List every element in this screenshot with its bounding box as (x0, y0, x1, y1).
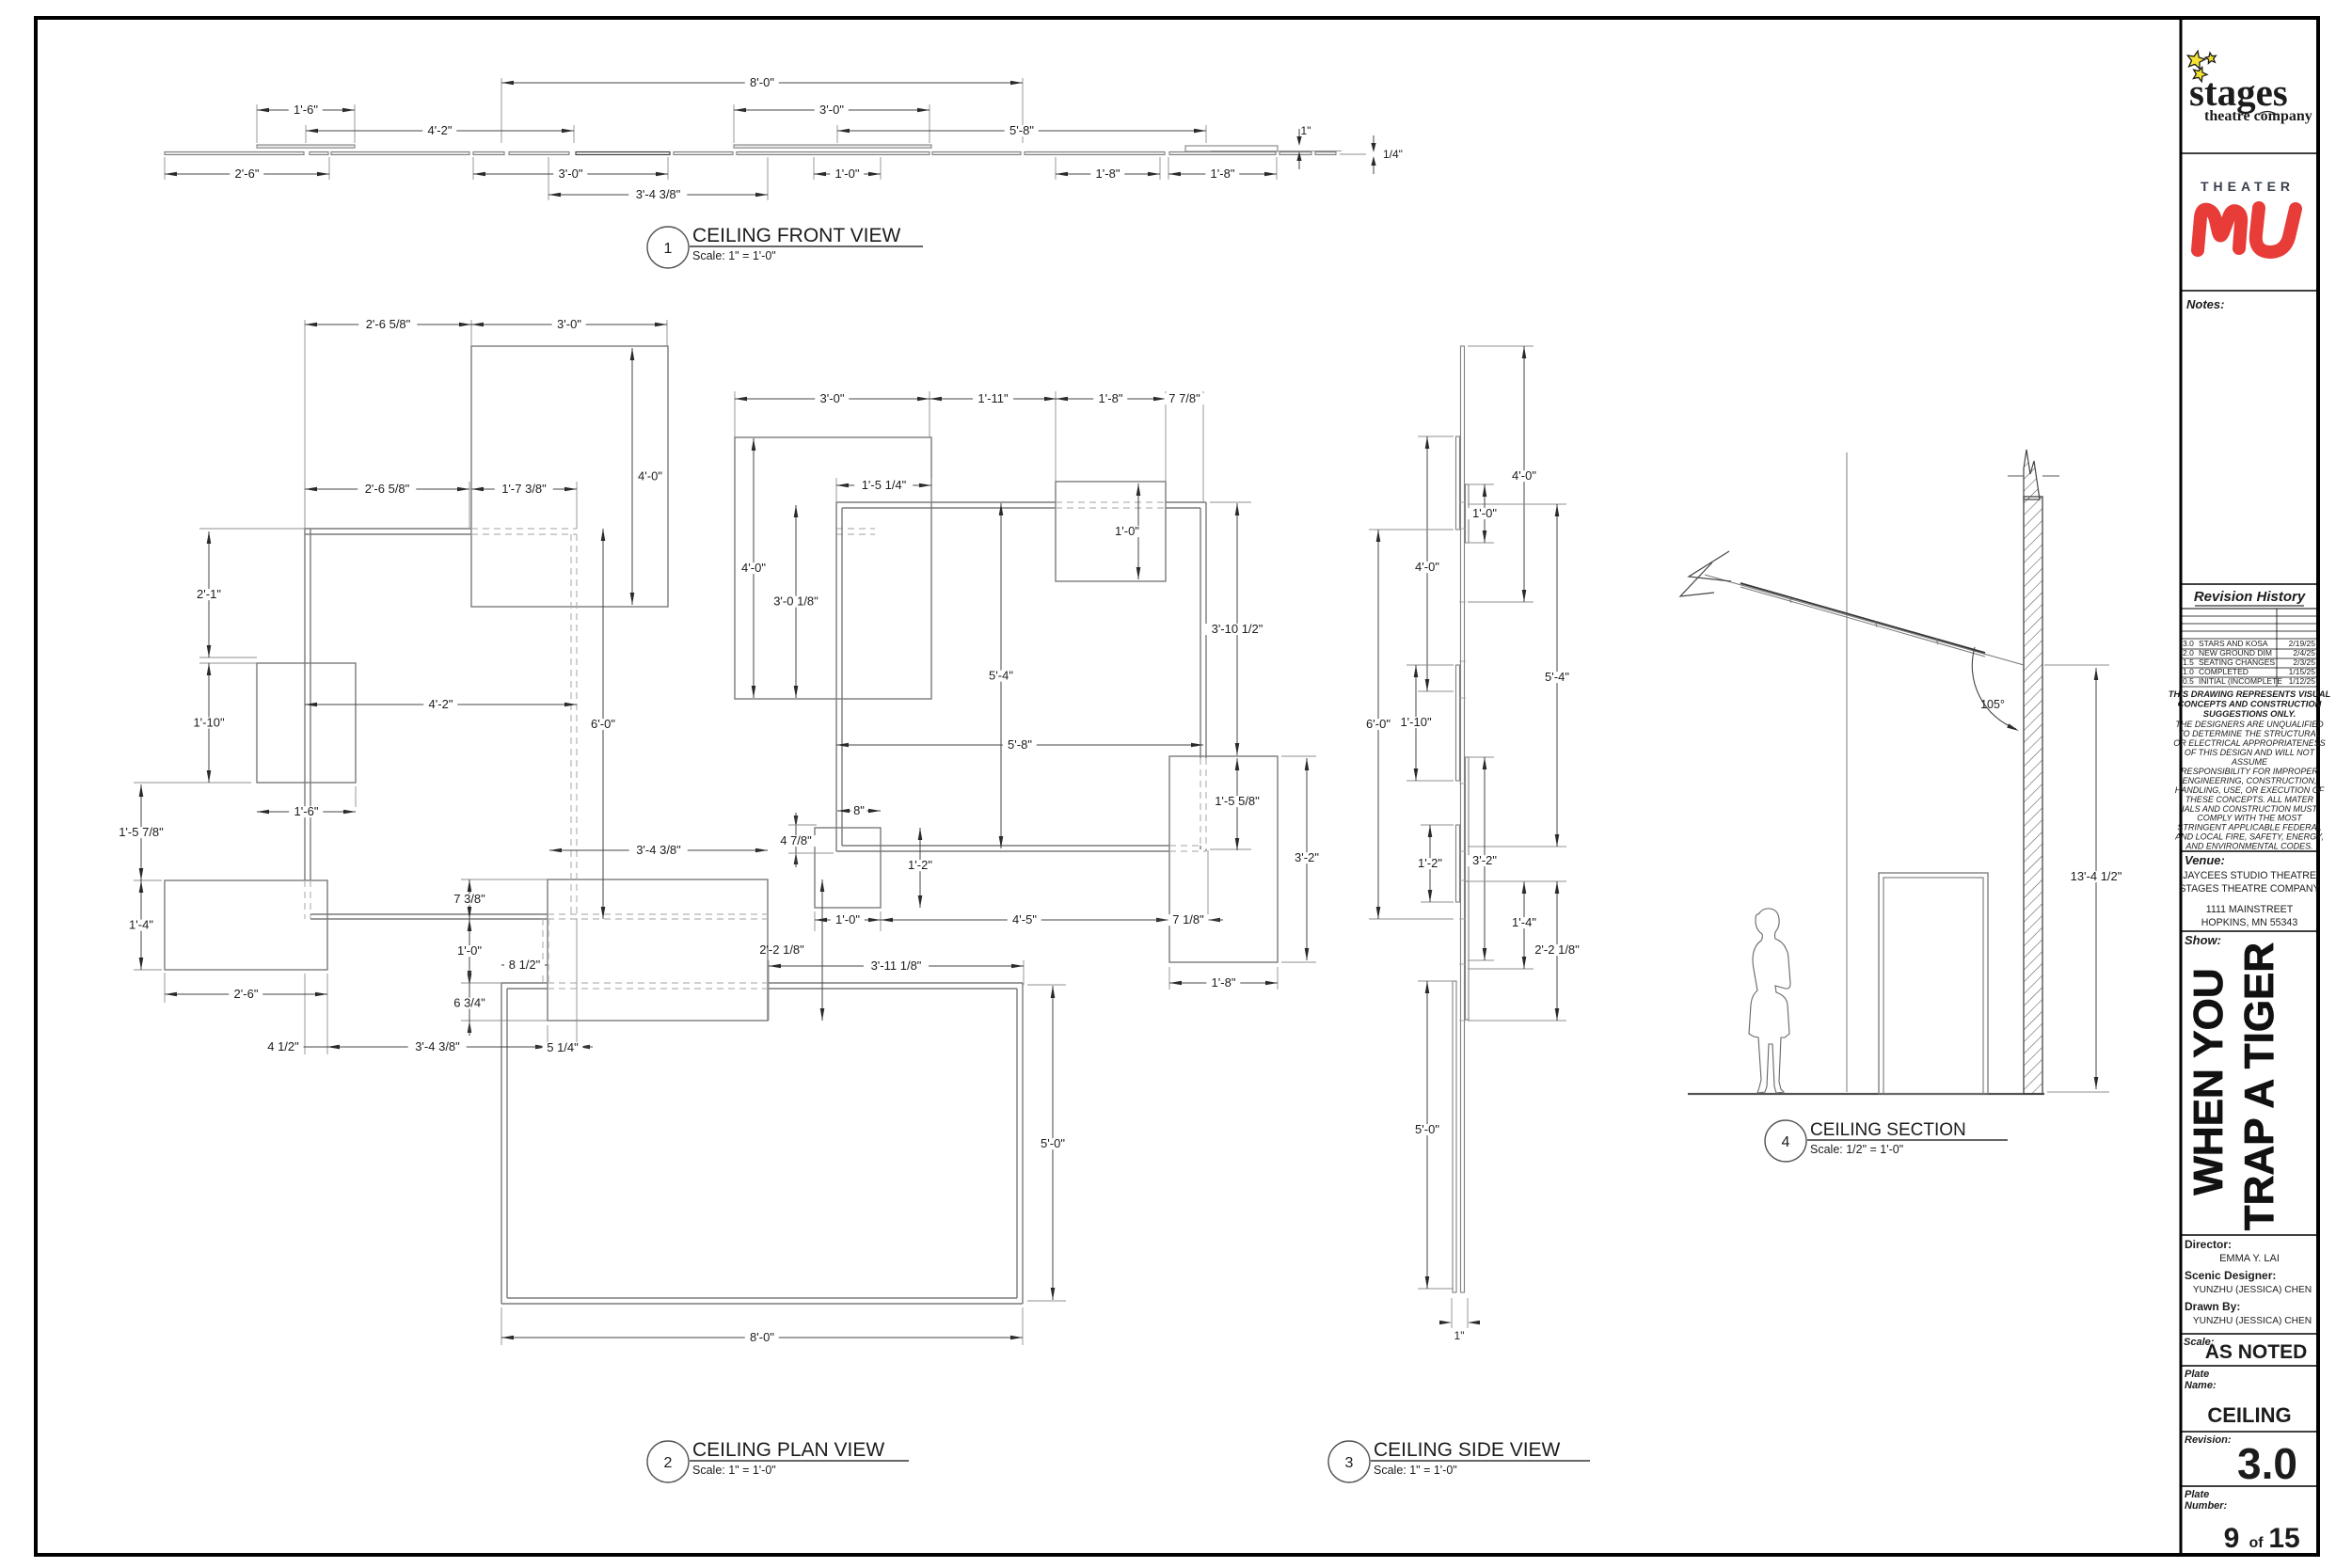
svg-text:5'-4": 5'-4" (1545, 670, 1569, 684)
svg-text:RESPONSIBILITY FOR IMPROPER: RESPONSIBILITY FOR IMPROPER (2181, 767, 2318, 776)
svg-text:THIS DRAWING REPRESENTS VISUAL: THIS DRAWING REPRESENTS VISUAL (2169, 689, 2331, 699)
svg-text:1": 1" (1301, 124, 1311, 137)
svg-text:1'-0": 1'-0" (457, 943, 482, 958)
svg-text:3.0: 3.0 (2183, 639, 2194, 648)
svg-text:Scale: 1" = 1'-0": Scale: 1" = 1'-0" (1374, 1464, 1457, 1477)
svg-text:THE DESIGNERS ARE UNQUALIFIED: THE DESIGNERS ARE UNQUALIFIED (2175, 720, 2324, 729)
svg-text:8'-0": 8'-0" (750, 75, 774, 89)
svg-text:HOPKINS, MN 55343: HOPKINS, MN 55343 (2201, 917, 2298, 928)
svg-text:YUNZHU (JESSICA) CHEN: YUNZHU (JESSICA) CHEN (2193, 1316, 2312, 1326)
svg-text:1'-5 5/8": 1'-5 5/8" (1215, 794, 1260, 808)
svg-text:1'-11": 1'-11" (977, 391, 1009, 405)
svg-text:Revision:: Revision: (2185, 1434, 2232, 1446)
svg-text:1'-2": 1'-2" (1418, 856, 1442, 870)
svg-text:OF THIS DESIGN AND WILL NOT: OF THIS DESIGN AND WILL NOT (2185, 748, 2316, 757)
svg-text:HANDLING, USE, OR EXECUTION OF: HANDLING, USE, OR EXECUTION OF (2175, 785, 2325, 795)
svg-text:1'-8": 1'-8" (1212, 975, 1236, 990)
svg-text:3'-0 1/8": 3'-0 1/8" (773, 594, 818, 609)
svg-text:YUNZHU (JESSICA) CHEN: YUNZHU (JESSICA) CHEN (2193, 1285, 2312, 1295)
svg-text:6'-0": 6'-0" (591, 717, 615, 731)
svg-text:7 3/8": 7 3/8" (453, 892, 485, 906)
svg-text:3'-4 3/8": 3'-4 3/8" (636, 187, 681, 201)
svg-text:Number:: Number: (2185, 1500, 2228, 1512)
svg-text:4'-2": 4'-2" (429, 697, 453, 711)
svg-text:1'-5 7/8": 1'-5 7/8" (119, 825, 164, 839)
svg-text:3'-0": 3'-0" (819, 103, 844, 117)
svg-text:Drawn By:: Drawn By: (2185, 1300, 2240, 1313)
svg-text:SUGGESTIONS ONLY.: SUGGESTIONS ONLY. (2203, 708, 2296, 719)
svg-text:5'-8": 5'-8" (1009, 123, 1034, 137)
svg-text:1'-8": 1'-8" (1099, 391, 1123, 405)
svg-text:COMPLETED: COMPLETED (2199, 667, 2249, 676)
svg-text:1'-6": 1'-6" (294, 804, 319, 818)
svg-text:4'-2": 4'-2" (428, 123, 453, 137)
svg-text:1.5: 1.5 (2183, 657, 2194, 667)
svg-text:5 1/4": 5 1/4" (547, 1040, 579, 1054)
svg-text:1/15/25: 1/15/25 (2289, 667, 2316, 676)
svg-text:2'-6 5/8": 2'-6 5/8" (366, 317, 411, 331)
svg-text:3'-0": 3'-0" (559, 166, 583, 181)
svg-text:1'-0": 1'-0" (1115, 524, 1139, 538)
svg-text:4 7/8": 4 7/8" (780, 833, 812, 847)
svg-text:NEW GROUND DIM: NEW GROUND DIM (2199, 648, 2272, 657)
svg-text:2'-2 1/8": 2'-2 1/8" (759, 942, 804, 957)
svg-text:4'-5": 4'-5" (1012, 912, 1037, 927)
svg-text:1'-0": 1'-0" (835, 166, 860, 181)
svg-text:theatre company: theatre company (2204, 108, 2312, 124)
svg-text:3: 3 (1345, 1455, 1354, 1471)
svg-text:Venue:: Venue: (2185, 853, 2225, 867)
svg-text:WHEN YOU: WHEN YOU (2185, 968, 2232, 1195)
svg-text:1'-8": 1'-8" (1211, 166, 1235, 181)
svg-text:1/4": 1/4" (1383, 148, 1403, 161)
svg-text:JAYCEES STUDIO THEATRE: JAYCEES STUDIO THEATRE (2183, 870, 2316, 881)
svg-text:CEILING SECTION: CEILING SECTION (1810, 1120, 1966, 1140)
svg-text:1'-10": 1'-10" (193, 716, 225, 730)
svg-text:2'-2 1/8": 2'-2 1/8" (1534, 942, 1580, 957)
svg-text:2: 2 (664, 1455, 673, 1471)
svg-text:2'-6": 2'-6" (235, 166, 260, 181)
svg-text:1111 MAINSTREET: 1111 MAINSTREET (2206, 904, 2294, 915)
svg-text:1'-2": 1'-2" (908, 858, 932, 872)
svg-text:3.0: 3.0 (2237, 1439, 2297, 1488)
svg-text:8'-0": 8'-0" (750, 1330, 774, 1344)
svg-text:5'-4": 5'-4" (989, 669, 1013, 683)
svg-text:1/12/25: 1/12/25 (2289, 676, 2316, 686)
svg-text:3'-2": 3'-2" (1295, 850, 1319, 864)
svg-text:5'-8": 5'-8" (1008, 737, 1032, 752)
svg-text:STRINGENT APPLICABLE FEDERAL: STRINGENT APPLICABLE FEDERAL (2177, 823, 2321, 832)
svg-text:6 3/4": 6 3/4" (453, 996, 485, 1010)
svg-text:105°: 105° (1980, 698, 2005, 711)
svg-text:3'-10 1/2": 3'-10 1/2" (1212, 622, 1263, 636)
svg-text:7 1/8": 7 1/8" (1172, 912, 1204, 927)
svg-text:9: 9 (2224, 1523, 2240, 1554)
svg-text:3'-11 1/8": 3'-11 1/8" (871, 958, 922, 973)
svg-text:CEILING PLAN VIEW: CEILING PLAN VIEW (692, 1439, 884, 1461)
svg-text:1'-0": 1'-0" (835, 912, 860, 927)
svg-text:4 1/2": 4 1/2" (267, 1039, 299, 1053)
svg-text:4'-0": 4'-0" (1415, 560, 1439, 574)
svg-text:1'-5 1/4": 1'-5 1/4" (862, 478, 907, 492)
svg-text:Notes:: Notes: (2186, 297, 2224, 311)
svg-text:1'-7 3/8": 1'-7 3/8" (501, 482, 547, 496)
svg-text:7 7/8": 7 7/8" (1168, 391, 1200, 405)
svg-text:THESE CONCEPTS. ALL MATER: THESE CONCEPTS. ALL MATER (2185, 795, 2314, 804)
svg-text:4'-0": 4'-0" (638, 469, 662, 483)
svg-text:STARS AND KOSA: STARS AND KOSA (2199, 639, 2268, 648)
svg-text:2'-6": 2'-6" (234, 987, 259, 1001)
svg-text:STAGES THEATRE COMPANY: STAGES THEATRE COMPANY (2179, 883, 2319, 895)
svg-text:2/19/25: 2/19/25 (2289, 639, 2316, 648)
svg-text:13'-4 1/2": 13'-4 1/2" (2071, 869, 2122, 883)
svg-text:TO DETERMINE THE STRUCTURAL: TO DETERMINE THE STRUCTURAL (2178, 729, 2320, 738)
svg-text:Plate: Plate (2185, 1369, 2209, 1380)
svg-text:CEILING: CEILING (2207, 1403, 2291, 1427)
svg-text:5'-0": 5'-0" (1041, 1136, 1065, 1150)
svg-text:of: of (2249, 1535, 2264, 1551)
svg-text:THEATER: THEATER (2201, 179, 2295, 194)
svg-text:1": 1" (1454, 1329, 1465, 1342)
svg-text:Director:: Director: (2185, 1238, 2232, 1251)
svg-text:Plate: Plate (2185, 1489, 2209, 1500)
svg-text:IALS AND CONSTRUCTION MUST: IALS AND CONSTRUCTION MUST (2182, 804, 2318, 814)
svg-text:Scale: 1" = 1'-0": Scale: 1" = 1'-0" (692, 249, 776, 262)
svg-text:SEATING CHANGES: SEATING CHANGES (2199, 657, 2275, 667)
svg-text:Scenic Designer:: Scenic Designer: (2185, 1269, 2276, 1282)
svg-text:15: 15 (2268, 1523, 2299, 1554)
svg-text:1'-0": 1'-0" (1472, 506, 1497, 520)
svg-text:Scale: 1/2" = 1'-0": Scale: 1/2" = 1'-0" (1810, 1143, 1903, 1156)
svg-text:1.0: 1.0 (2183, 667, 2194, 676)
svg-text:INITIAL (INCOMPLETE: INITIAL (INCOMPLETE (2199, 676, 2282, 686)
svg-text:2/3/25: 2/3/25 (2293, 657, 2315, 667)
svg-text:1'-8": 1'-8" (1096, 166, 1120, 181)
svg-text:1'-10": 1'-10" (1400, 715, 1432, 729)
svg-text:3'-0": 3'-0" (557, 317, 581, 331)
svg-text:AS NOTED: AS NOTED (2205, 1341, 2308, 1363)
svg-text:3'-4 3/8": 3'-4 3/8" (415, 1039, 460, 1053)
svg-text:2'-1": 2'-1" (197, 587, 221, 601)
svg-text:1'-4": 1'-4" (1512, 915, 1536, 929)
svg-text:Name:: Name: (2185, 1380, 2217, 1391)
svg-text:Revision History: Revision History (2194, 589, 2306, 605)
svg-text:3'-2": 3'-2" (1472, 853, 1497, 867)
svg-text:3'-4 3/8": 3'-4 3/8" (636, 843, 681, 857)
svg-text:AND LOCAL FIRE, SAFETY, ENERGY: AND LOCAL FIRE, SAFETY, ENERGY, (2174, 832, 2324, 842)
svg-text:4'-0": 4'-0" (741, 561, 766, 575)
svg-text:2'-6 5/8": 2'-6 5/8" (365, 482, 410, 496)
svg-text:4'-0": 4'-0" (1512, 468, 1536, 483)
svg-text:CEILING SIDE VIEW: CEILING SIDE VIEW (1374, 1439, 1561, 1461)
svg-text:1'-6": 1'-6" (294, 103, 318, 117)
svg-text:2.0: 2.0 (2183, 648, 2194, 657)
svg-text:6'-0": 6'-0" (1366, 717, 1391, 731)
svg-text:3'-0": 3'-0" (820, 391, 845, 405)
svg-text:ENGINEERING, CONSTRUCTION,: ENGINEERING, CONSTRUCTION, (2182, 776, 2316, 785)
svg-text:CONCEPTS AND CONSTRUCTION: CONCEPTS AND CONSTRUCTION (2178, 698, 2322, 708)
svg-text:1'-4": 1'-4" (129, 918, 153, 932)
svg-text:EMMA Y. LAI: EMMA Y. LAI (2219, 1253, 2280, 1264)
svg-text:8 1/2": 8 1/2" (509, 958, 541, 972)
svg-text:Show:: Show: (2185, 933, 2221, 947)
svg-text:COMPLY WITH THE MOST: COMPLY WITH THE MOST (2197, 814, 2303, 823)
svg-text:OR ELECTRICAL APPROPRIATENESS: OR ELECTRICAL APPROPRIATENESS (2173, 738, 2325, 748)
svg-text:0.5: 0.5 (2183, 676, 2194, 686)
svg-text:CEILING FRONT VIEW: CEILING FRONT VIEW (692, 225, 900, 246)
svg-text:5'-0": 5'-0" (1415, 1122, 1439, 1136)
svg-text:ASSUME: ASSUME (2231, 757, 2268, 767)
svg-text:TRAP A TIGER: TRAP A TIGER (2236, 942, 2282, 1230)
svg-text:2/4/25: 2/4/25 (2293, 648, 2315, 657)
svg-text:1: 1 (664, 241, 673, 257)
svg-text:4: 4 (1782, 1134, 1790, 1150)
svg-text:8": 8" (853, 803, 865, 817)
svg-text:AND ENVIRONMENTAL CODES.: AND ENVIRONMENTAL CODES. (2185, 842, 2312, 851)
svg-text:Scale: 1" = 1'-0": Scale: 1" = 1'-0" (692, 1464, 776, 1477)
